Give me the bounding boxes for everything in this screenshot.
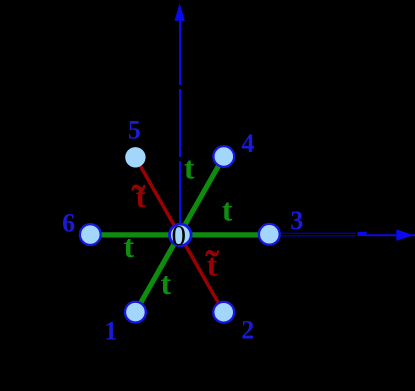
wire: green bond 1-4 [135,157,223,313]
svg-text:4: 4 [241,129,254,158]
svg-text:˜: ˜ [132,178,146,224]
node 4 [213,146,234,167]
label t-tilde (bond 0-2) [205,243,219,289]
svg-text:t: t [184,151,195,186]
node 6 [80,224,101,245]
svg-text:2: 2 [241,315,254,344]
svg-text:5: 5 [128,115,141,144]
node 1 [125,302,146,323]
wire: red bond 5-2 [135,157,223,312]
wire: green bond 6-3 [90,232,269,237]
label t-tilde (bond 0-5) [132,178,147,224]
svg-text:1: 1 [104,317,117,346]
horizontal axis (navy thin part) [180,233,356,237]
svg-text:t: t [161,266,172,301]
node 2 [213,302,234,323]
vertical axis (dashed bright blue) [179,21,181,234]
svg-text:6: 6 [62,208,75,237]
vertical axis arrowhead [175,3,185,21]
svg-text:t: t [124,229,135,264]
svg-text:t: t [222,193,233,228]
horizontal axis arrow (bright blue) [358,229,415,241]
svg-text:3: 3 [290,206,303,235]
node 5 [125,147,145,167]
node 0 (origin) [170,224,192,246]
svg-text:˜: ˜ [205,243,219,289]
svg-text:0: 0 [172,220,187,252]
node 3 [259,224,280,245]
